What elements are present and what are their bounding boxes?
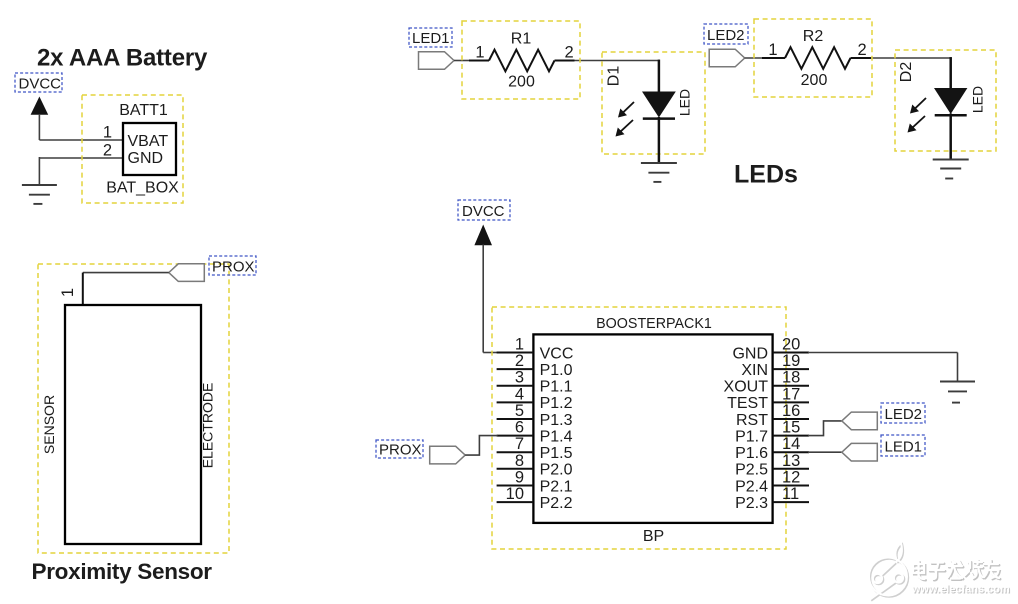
svg-text:LED1: LED1 <box>885 439 923 456</box>
svg-text:D1: D1 <box>606 66 623 87</box>
svg-text:16: 16 <box>782 402 800 420</box>
svg-text:200: 200 <box>508 74 535 91</box>
svg-text:D2: D2 <box>898 62 915 83</box>
svg-text:PROX: PROX <box>212 259 255 276</box>
svg-text:BAT_BOX: BAT_BOX <box>106 180 179 197</box>
svg-text:VCC: VCC <box>540 345 574 362</box>
svg-text:18: 18 <box>782 369 800 387</box>
svg-text:200: 200 <box>801 72 828 89</box>
svg-text:P2.4: P2.4 <box>735 478 768 495</box>
svg-text:13: 13 <box>782 452 800 470</box>
svg-text:2: 2 <box>858 41 867 59</box>
svg-text:2: 2 <box>103 142 112 160</box>
svg-text:BATT1: BATT1 <box>119 102 168 119</box>
svg-text:LED: LED <box>677 89 693 116</box>
svg-text:VBAT: VBAT <box>128 133 169 150</box>
svg-text:BP: BP <box>643 528 664 545</box>
svg-text:17: 17 <box>782 385 800 403</box>
svg-text:14: 14 <box>782 435 800 453</box>
svg-text:15: 15 <box>782 419 800 437</box>
svg-text:P1.2: P1.2 <box>540 395 573 412</box>
svg-text:XIN: XIN <box>741 362 768 379</box>
svg-text:2: 2 <box>565 44 574 62</box>
svg-text:LED: LED <box>970 86 986 113</box>
svg-text:GND: GND <box>732 345 768 362</box>
svg-text:R2: R2 <box>803 28 824 45</box>
svg-text:2x AAA Battery: 2x AAA Battery <box>37 45 208 72</box>
svg-text:R1: R1 <box>511 31 532 48</box>
svg-text:4: 4 <box>515 385 524 403</box>
svg-text:6: 6 <box>515 419 524 437</box>
svg-text:RST: RST <box>736 412 768 429</box>
svg-text:20: 20 <box>782 336 800 354</box>
svg-text:LEDs: LEDs <box>734 161 798 189</box>
svg-text:1: 1 <box>768 41 777 59</box>
svg-text:12: 12 <box>782 469 800 487</box>
svg-text:Proximity Sensor: Proximity Sensor <box>32 559 213 584</box>
svg-text:LED2: LED2 <box>885 406 923 423</box>
svg-text:2: 2 <box>515 352 524 370</box>
svg-text:1: 1 <box>515 336 524 354</box>
svg-text:5: 5 <box>515 402 524 420</box>
svg-text:PROX: PROX <box>379 442 422 459</box>
svg-text:1: 1 <box>103 124 112 142</box>
svg-text:LED1: LED1 <box>412 30 450 47</box>
svg-text:TEST: TEST <box>727 395 768 412</box>
svg-text:www.elecfans.com: www.elecfans.com <box>911 584 1010 596</box>
svg-text:1: 1 <box>59 288 77 297</box>
svg-text:7: 7 <box>515 435 524 453</box>
svg-text:10: 10 <box>506 485 524 503</box>
svg-text:1: 1 <box>475 44 484 62</box>
svg-text:9: 9 <box>515 469 524 487</box>
svg-text:P2.2: P2.2 <box>540 495 573 512</box>
svg-text:P2.1: P2.1 <box>540 478 573 495</box>
svg-text:P1.3: P1.3 <box>540 412 573 429</box>
svg-text:3: 3 <box>515 369 524 387</box>
svg-text:P1.5: P1.5 <box>540 445 573 462</box>
svg-text:P1.6: P1.6 <box>735 445 768 462</box>
svg-text:DVCC: DVCC <box>19 76 62 93</box>
svg-text:ELECTRODE: ELECTRODE <box>200 383 216 469</box>
svg-text:19: 19 <box>782 352 800 370</box>
svg-text:P1.4: P1.4 <box>540 428 573 445</box>
svg-text:P2.0: P2.0 <box>540 462 573 479</box>
svg-text:GND: GND <box>128 150 164 167</box>
svg-text:P2.3: P2.3 <box>735 495 768 512</box>
svg-text:SENSOR: SENSOR <box>41 395 57 454</box>
svg-text:8: 8 <box>515 452 524 470</box>
svg-text:XOUT: XOUT <box>724 379 769 396</box>
svg-text:P2.5: P2.5 <box>735 462 768 479</box>
svg-text:LED2: LED2 <box>707 27 745 44</box>
svg-text:P1.1: P1.1 <box>540 379 573 396</box>
svg-text:BOOSTERPACK1: BOOSTERPACK1 <box>596 316 712 332</box>
svg-text:DVCC: DVCC <box>462 203 505 220</box>
svg-text:P1.0: P1.0 <box>540 362 573 379</box>
svg-text:P1.7: P1.7 <box>735 428 768 445</box>
svg-text:11: 11 <box>782 485 799 503</box>
